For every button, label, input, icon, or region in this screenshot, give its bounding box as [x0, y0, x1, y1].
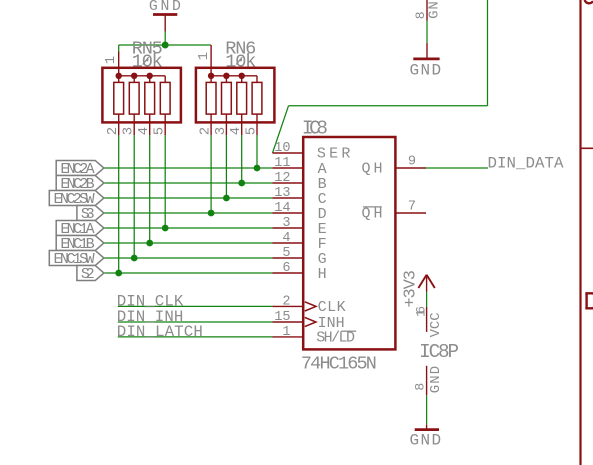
svg-text:DIN_DATA: DIN_DATA — [488, 154, 565, 172]
svg-text:CLK: CLK — [318, 299, 346, 316]
svg-text:8: 8 — [412, 383, 427, 391]
svg-text:16: 16 — [415, 306, 429, 317]
svg-text:10k: 10k — [225, 51, 256, 72]
svg-text:4: 4 — [228, 127, 244, 135]
svg-text:GND: GND — [427, 0, 443, 19]
svg-text:1: 1 — [103, 56, 119, 64]
svg-text:2: 2 — [105, 127, 121, 135]
svg-text:12: 12 — [274, 171, 290, 186]
svg-text:+3V3: +3V3 — [402, 270, 421, 308]
svg-text:14: 14 — [274, 201, 290, 216]
svg-text:5: 5 — [244, 127, 260, 135]
svg-text:QH: QH — [362, 206, 383, 223]
svg-text:QH: QH — [362, 161, 383, 178]
svg-text:15: 15 — [274, 310, 290, 325]
svg-text:7: 7 — [408, 199, 416, 214]
svg-text:GND: GND — [428, 366, 444, 393]
svg-text:IC8P: IC8P — [419, 341, 459, 363]
svg-text:4: 4 — [136, 127, 152, 135]
svg-text:13: 13 — [274, 186, 290, 201]
svg-text:GND: GND — [410, 62, 442, 80]
svg-text:1: 1 — [282, 325, 290, 340]
svg-text:5: 5 — [282, 246, 290, 261]
svg-text:SH/LD: SH/LD — [316, 330, 355, 347]
svg-text:2: 2 — [198, 127, 214, 135]
svg-text:IC8: IC8 — [302, 117, 328, 139]
svg-text:2: 2 — [282, 294, 290, 309]
svg-text:9: 9 — [408, 154, 416, 169]
svg-text:VCC: VCC — [428, 312, 444, 337]
svg-text:1: 1 — [196, 52, 212, 60]
svg-text:10k: 10k — [132, 51, 163, 72]
svg-text:10: 10 — [274, 141, 290, 156]
svg-text:5: 5 — [152, 127, 168, 135]
svg-text:GND: GND — [149, 0, 181, 15]
svg-text:6: 6 — [282, 261, 290, 276]
svg-text:GND: GND — [410, 431, 442, 449]
svg-text:3: 3 — [282, 216, 290, 231]
svg-text:11: 11 — [274, 156, 290, 171]
svg-text:3: 3 — [213, 127, 229, 135]
svg-text:DIN_LATCH: DIN_LATCH — [117, 323, 203, 341]
svg-text:3: 3 — [121, 127, 137, 135]
svg-text:S2: S2 — [81, 266, 95, 283]
svg-text:H: H — [318, 266, 327, 283]
svg-text:74HC165N: 74HC165N — [301, 353, 377, 374]
svg-text:4: 4 — [282, 231, 290, 246]
